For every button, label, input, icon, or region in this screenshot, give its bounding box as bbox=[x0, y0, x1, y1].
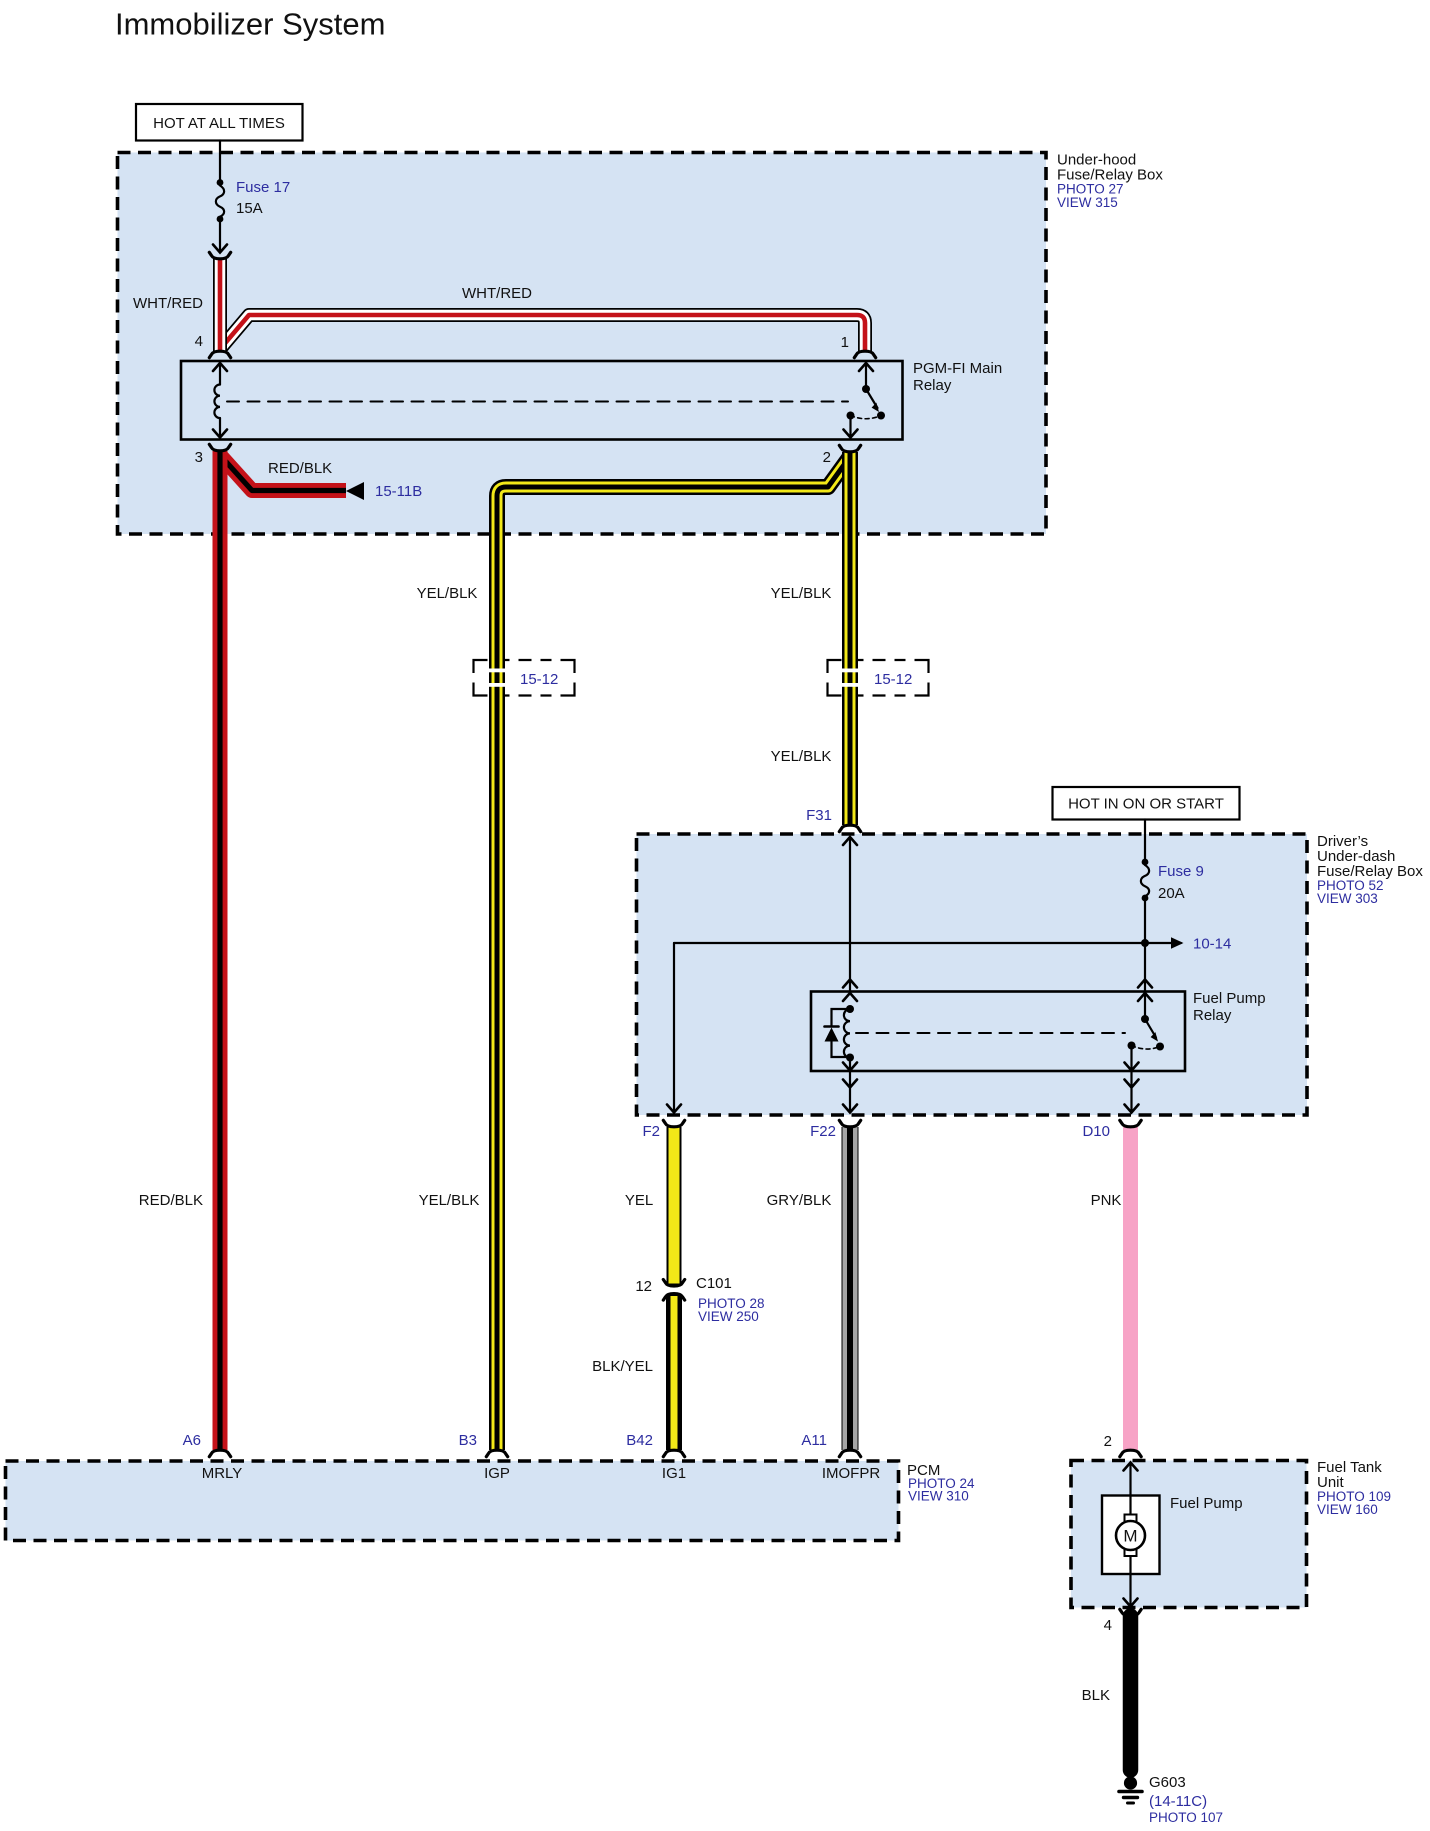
svg-text:2: 2 bbox=[823, 449, 831, 466]
svg-text:B42: B42 bbox=[626, 1432, 653, 1449]
svg-text:F22: F22 bbox=[810, 1123, 836, 1140]
svg-text:RED/BLK: RED/BLK bbox=[139, 1192, 203, 1209]
svg-text:IG1: IG1 bbox=[662, 1465, 686, 1482]
svg-text:4: 4 bbox=[1104, 1617, 1112, 1634]
svg-text:3: 3 bbox=[195, 449, 203, 466]
svg-text:BLK/YEL: BLK/YEL bbox=[592, 1358, 653, 1375]
svg-text:20A: 20A bbox=[1158, 885, 1185, 902]
svg-text:RED/BLK: RED/BLK bbox=[268, 460, 332, 477]
svg-text:VIEW 303: VIEW 303 bbox=[1317, 891, 1378, 906]
svg-text:12: 12 bbox=[635, 1278, 652, 1295]
svg-text:YEL/BLK: YEL/BLK bbox=[771, 585, 832, 602]
svg-text:Relay: Relay bbox=[913, 377, 952, 394]
svg-text:1: 1 bbox=[841, 334, 849, 351]
svg-text:F2: F2 bbox=[642, 1123, 660, 1140]
svg-text:2: 2 bbox=[1104, 1433, 1112, 1450]
svg-text:A11: A11 bbox=[801, 1432, 827, 1449]
svg-text:Immobilizer System: Immobilizer System bbox=[115, 7, 385, 42]
svg-text:YEL/BLK: YEL/BLK bbox=[417, 585, 478, 602]
svg-text:Relay: Relay bbox=[1193, 1007, 1232, 1024]
svg-text:(14-11C): (14-11C) bbox=[1149, 1793, 1207, 1810]
svg-text:VIEW 315: VIEW 315 bbox=[1057, 195, 1118, 210]
svg-text:G603: G603 bbox=[1149, 1774, 1186, 1791]
svg-text:BLK: BLK bbox=[1082, 1687, 1110, 1704]
svg-text:PGM-FI Main: PGM-FI Main bbox=[913, 360, 1002, 377]
svg-text:IGP: IGP bbox=[484, 1465, 510, 1482]
svg-text:A6: A6 bbox=[183, 1432, 201, 1449]
svg-text:15-12: 15-12 bbox=[874, 671, 912, 688]
svg-text:15A: 15A bbox=[236, 200, 263, 217]
svg-text:F31: F31 bbox=[806, 807, 832, 824]
svg-text:VIEW 310: VIEW 310 bbox=[908, 1489, 969, 1504]
svg-text:WHT/RED: WHT/RED bbox=[133, 295, 203, 312]
svg-text:WHT/RED: WHT/RED bbox=[462, 285, 532, 302]
svg-text:D10: D10 bbox=[1082, 1123, 1110, 1140]
svg-text:IMOFPR: IMOFPR bbox=[822, 1465, 880, 1482]
svg-text:C101: C101 bbox=[696, 1275, 732, 1292]
svg-text:Fuse 17: Fuse 17 bbox=[236, 179, 290, 196]
svg-text:10-14: 10-14 bbox=[1193, 936, 1231, 953]
svg-text:4: 4 bbox=[195, 333, 203, 350]
svg-text:GRY/BLK: GRY/BLK bbox=[767, 1192, 832, 1209]
svg-text:Fuel Pump: Fuel Pump bbox=[1170, 1495, 1243, 1512]
svg-text:15-12: 15-12 bbox=[520, 671, 558, 688]
svg-text:B3: B3 bbox=[459, 1432, 477, 1449]
svg-text:Fuse 9: Fuse 9 bbox=[1158, 863, 1204, 880]
svg-text:YEL: YEL bbox=[625, 1192, 653, 1209]
svg-text:HOT IN ON OR START: HOT IN ON OR START bbox=[1068, 796, 1224, 813]
svg-text:M: M bbox=[1123, 1527, 1137, 1546]
svg-text:HOT AT ALL TIMES: HOT AT ALL TIMES bbox=[153, 115, 285, 132]
svg-text:VIEW 250: VIEW 250 bbox=[698, 1309, 759, 1324]
svg-text:PNK: PNK bbox=[1091, 1192, 1122, 1209]
svg-text:MRLY: MRLY bbox=[202, 1465, 243, 1482]
svg-text:YEL/BLK: YEL/BLK bbox=[419, 1192, 480, 1209]
svg-text:YEL/BLK: YEL/BLK bbox=[771, 748, 832, 765]
svg-text:VIEW 160: VIEW 160 bbox=[1317, 1502, 1378, 1517]
svg-text:15-11B: 15-11B bbox=[375, 483, 422, 500]
svg-text:PHOTO 107: PHOTO 107 bbox=[1149, 1810, 1223, 1825]
svg-text:Fuel Pump: Fuel Pump bbox=[1193, 990, 1266, 1007]
